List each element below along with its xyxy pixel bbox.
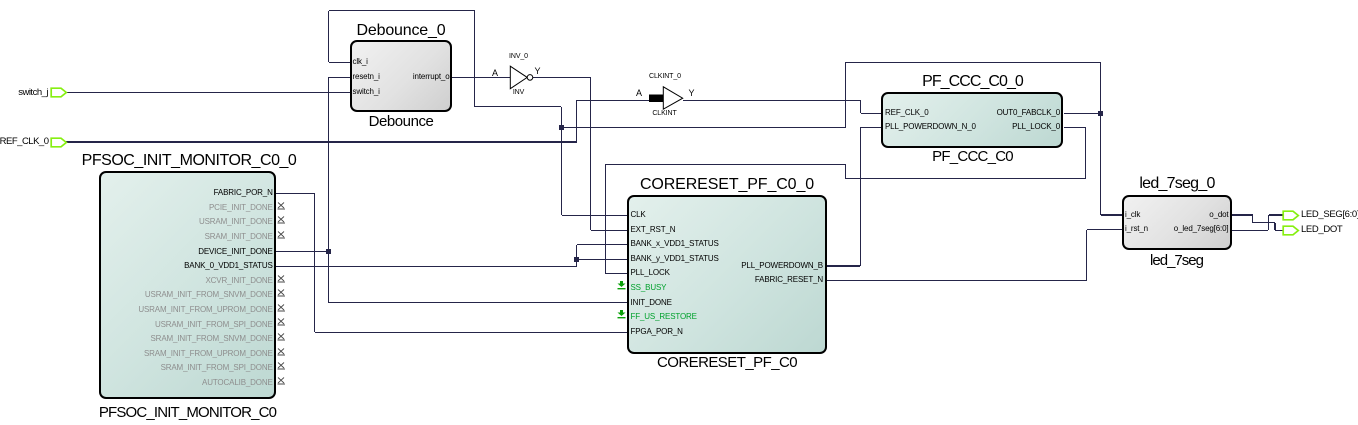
wire net resetn DEVICE_INIT_DONE stub (276, 251, 329, 252)
wire net CLKINT_Y down (860, 100, 861, 113)
wire net FABCLK clk_i stub (329, 62, 351, 63)
unconnected marker USRAM_INIT_FROM_SNVM_DONE (277, 289, 286, 297)
wire net REF_CLK_0 up to CLKINT (576, 100, 577, 142)
wire net FABCLK OUT0_FABCLK_0 stub (1064, 113, 1101, 114)
wire net FABRIC_POR_N FPGA_POR_N seg (315, 332, 627, 333)
wire net PLL_POWERDOWN_B stub (827, 265, 861, 266)
wire net PLL_LOCK down x606 (605, 164, 606, 274)
wire net FABCLK top horizontal y63 (845, 62, 1100, 63)
junction FABCLK at OUT0_FABCLK_0 (1098, 111, 1103, 116)
wire net PLL_POWERDOWN_N_0 stub (861, 127, 882, 128)
wire net o_dot seg3 (1253, 222, 1275, 223)
module instance led_7seg_0 (1122, 195, 1232, 251)
wire net resetn INIT_DONE seg (329, 302, 628, 303)
wire net BANK0 horizontal y266 (276, 266, 577, 267)
wire net PLL_LOCK down x1086 (1085, 127, 1086, 179)
wire net FABCLK seg x561 down (561, 107, 562, 128)
output port LED_DOT (1282, 225, 1300, 236)
module instance PF_CCC_C0_0 (881, 92, 1063, 148)
wire net FABCLK CLK vertical x561 (561, 128, 562, 216)
junction BANK0 at BANK_y (574, 257, 579, 262)
wire net REF_CLK_0 CLKINT A stub (577, 100, 650, 101)
wire net PLL_LOCK horizontal y164 (606, 164, 846, 165)
wire net BANK0 vertical x577 (576, 245, 577, 267)
unconnected marker AUTOCALIB_DONE (277, 377, 286, 385)
unconnected marker SRAM_INIT_FROM_SPI_DONE (277, 362, 286, 370)
wire net switch_j (66, 92, 350, 93)
unconnected marker SRAM_INIT_FROM_SNVM_DONE (277, 333, 286, 341)
wire net FABCLK right vertical x1101 (1100, 63, 1101, 215)
wire net FABRIC_RESET_N vertical x1087 (1086, 230, 1087, 281)
wire net FABCLK main horizontal y128 (562, 127, 846, 128)
wire net o_dot seg2 (1252, 215, 1253, 223)
wire net FABRIC_RESET_N horizontal (827, 280, 1087, 281)
module instance Debounce_0 (350, 40, 453, 112)
clock buffer CLKINT_0 (648, 85, 684, 111)
wire net FABCLK CLK stub (562, 215, 628, 216)
wire net PLL_LOCK horizontal y179 (845, 178, 1086, 179)
wire net o_led_7seg seg3 (1269, 214, 1283, 215)
wire net FABRIC_POR_N vertical x315 (314, 194, 315, 333)
wire net PLL_LOCK jog x845 (845, 164, 846, 179)
unconnected marker USRAM_INIT_DONE (277, 216, 286, 224)
wire net FABCLK left loop seg (328, 11, 329, 62)
unconnected marker XCVR_INIT_DONE (277, 275, 286, 283)
wire net resetn stub (329, 77, 351, 78)
unconnected marker SRAM_INIT_DONE (277, 231, 286, 239)
unconnected marker SRAM_INIT_FROM_UPROM_DONE (277, 348, 286, 356)
tie-low marker FF_US_RESTORE (616, 310, 627, 319)
wire net FABRIC_POR_N stub (276, 193, 315, 194)
wire net FABCLK seg y106 (475, 106, 562, 107)
input port REF_CLK_0 (50, 137, 68, 148)
wire net CLKINT_Y horizontal (683, 100, 861, 101)
inverter INV_0 (508, 64, 536, 91)
wire net INV_Y EXT_RST_N stub (591, 230, 628, 231)
wire net FABCLK top loop seg (329, 10, 475, 11)
wire net INV_Y vertical x590 (590, 77, 591, 230)
wire net FABCLK loop down seg (474, 11, 475, 107)
wire net FABCLK i_clk stub (1101, 214, 1122, 215)
input port switch_j (50, 87, 68, 98)
junction resetn at DEVICE_INIT_DONE (326, 249, 331, 254)
wire net o_dot seg1 (1232, 214, 1253, 215)
wire net BANK0 BANK_y stub (577, 259, 627, 260)
wire net resetn vertical x328 (328, 77, 329, 303)
module instance PFSOC_INIT_MONITOR_C0_0 (99, 171, 276, 399)
wire net BANK0 BANK_x stub (577, 244, 627, 245)
wire net PLL_POWERDOWN vertical x860 (860, 127, 861, 266)
wire net REF_CLK_0 horizontal y142 (66, 141, 577, 142)
wire net FABRIC_RESET_N i_rst_n stub (1087, 229, 1122, 230)
unconnected marker PCIE_INIT_DONE (277, 202, 286, 210)
unconnected marker USRAM_INIT_FROM_UPROM_DONE (277, 304, 286, 312)
output port LED_SEG (1282, 210, 1300, 221)
wire net FABCLK seg x845 up (845, 63, 846, 128)
wire net interrupt_o (452, 77, 510, 78)
unconnected marker USRAM_INIT_FROM_SPI_DONE (277, 318, 286, 326)
wire net o_dot seg4 (1274, 223, 1275, 230)
wire net INV_Y horizontal (533, 77, 591, 78)
wire net PLL_LOCK stub (606, 273, 627, 274)
wire net PLL_LOCK PLL_LOCK_0 stub (1064, 127, 1086, 128)
wire net o_dot seg5 (1275, 230, 1283, 231)
wire net o_led_7seg seg2 (1268, 215, 1269, 230)
junction FABCLK at x561 y128 (559, 125, 564, 130)
wire net o_led_7seg seg1 (1232, 230, 1269, 231)
wire net CLKINT_Y REF_CLK_0 stub (861, 113, 882, 114)
tie-low marker SS_BUSY (616, 281, 627, 290)
module instance CORERESET_PF_C0_0 (627, 195, 827, 354)
